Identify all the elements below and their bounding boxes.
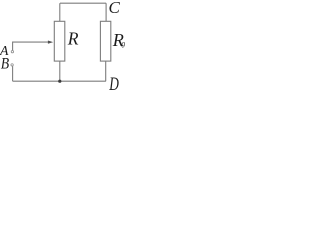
wire bottom horizontal rail to D <box>13 80 106 82</box>
wire top lead of R <box>59 3 61 21</box>
terminal B circle <box>11 64 13 66</box>
svg-text:B: B <box>1 56 9 73</box>
wire top lead of R0 <box>105 3 107 21</box>
wire terminal B down to bottom rail <box>12 66 14 81</box>
junction dot on bottom rail <box>58 80 61 83</box>
wiper arrowhead into R <box>48 41 53 44</box>
svg-text:D: D <box>108 75 119 90</box>
svg-text:C: C <box>109 0 121 17</box>
resistor R box <box>54 21 65 61</box>
wire bottom lead of R <box>59 61 61 81</box>
wire bottom lead of R0 <box>105 61 107 81</box>
wire top horizontal rail to C <box>60 2 106 4</box>
svg-text:R: R <box>67 28 79 48</box>
svg-text:0: 0 <box>121 40 125 50</box>
resistor R0 box <box>100 21 110 61</box>
terminal A circle <box>11 51 13 53</box>
wire terminal A up and right to wiper <box>13 42 49 50</box>
